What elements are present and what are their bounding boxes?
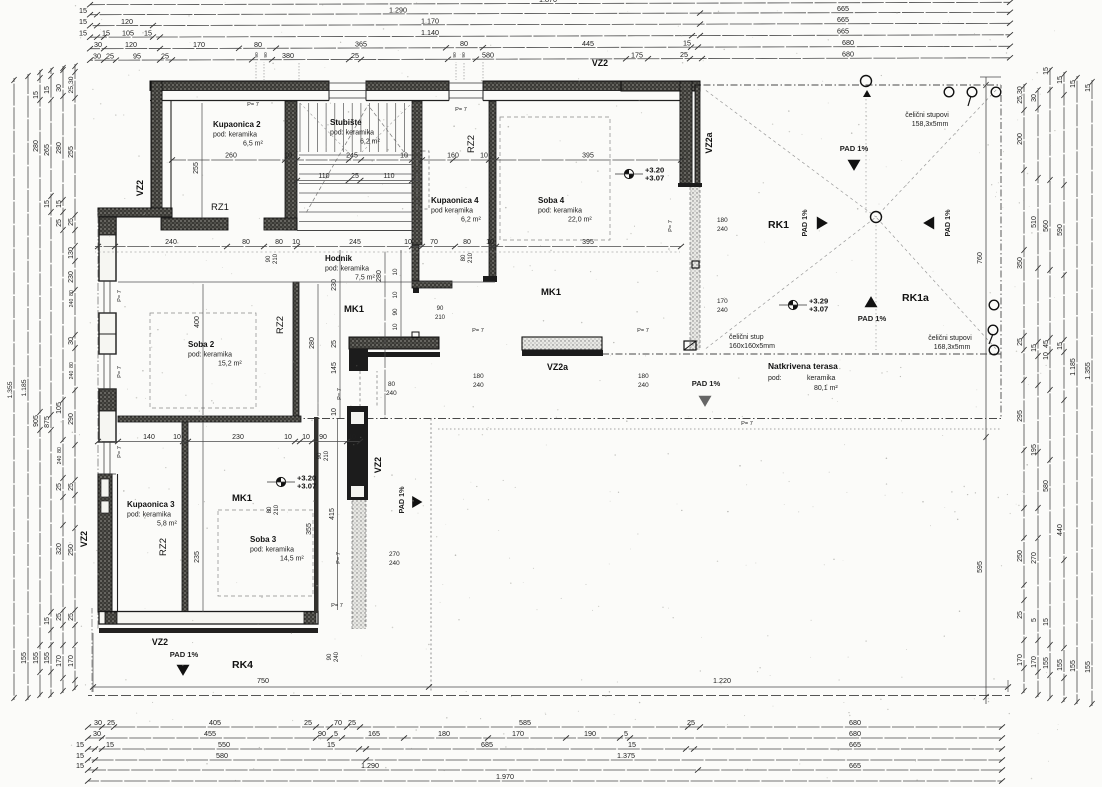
- svg-text:10: 10: [173, 434, 181, 441]
- svg-text:120: 120: [125, 40, 137, 49]
- svg-text:80,1 m²: 80,1 m²: [814, 385, 838, 392]
- steel columns circles: [861, 76, 1001, 355]
- svg-text:1.970: 1.970: [496, 772, 514, 781]
- wall step left: [98, 208, 172, 217]
- 180/240 left: [473, 373, 484, 389]
- svg-text:15: 15: [76, 751, 84, 760]
- svg-text:320: 320: [56, 543, 63, 555]
- svg-text:15: 15: [44, 200, 51, 208]
- svg-text:7,5 m²: 7,5 m²: [355, 275, 376, 282]
- svg-text:160: 160: [447, 153, 459, 160]
- svg-text:105: 105: [122, 29, 134, 38]
- svg-text:158,3x5mm: 158,3x5mm: [912, 121, 949, 128]
- svg-text:15: 15: [1070, 80, 1077, 88]
- svg-text:1.290: 1.290: [361, 761, 379, 770]
- svg-text:170: 170: [512, 729, 524, 738]
- svg-text:10: 10: [284, 153, 292, 160]
- svg-text:230: 230: [68, 271, 75, 283]
- room Kupaonica 2: [213, 120, 264, 148]
- top dimension chains: [79, 0, 1013, 80]
- svg-text:665: 665: [849, 740, 861, 749]
- svg-text:15: 15: [102, 29, 110, 38]
- svg-text:80: 80: [388, 381, 396, 388]
- PAD 1% top terrace: [840, 144, 869, 171]
- svg-text:445: 445: [582, 39, 594, 48]
- svg-text:1.140: 1.140: [421, 28, 439, 37]
- svg-text:235: 235: [194, 551, 201, 563]
- svg-text:+3.07: +3.07: [809, 305, 828, 314]
- svg-text:keramika: keramika: [807, 375, 836, 382]
- svg-text:905: 905: [33, 415, 40, 427]
- svg-text:210: 210: [468, 252, 474, 263]
- svg-text:15: 15: [1057, 342, 1064, 350]
- svg-text:440: 440: [1057, 524, 1064, 536]
- svg-text:25: 25: [348, 718, 356, 727]
- svg-text:10: 10: [392, 291, 399, 299]
- svg-text:VZ2: VZ2: [135, 180, 145, 196]
- svg-text:P= 7: P= 7: [336, 552, 342, 564]
- svg-text:240: 240: [473, 382, 484, 389]
- dim chain y180 stairs: [294, 173, 422, 183]
- svg-text:25: 25: [680, 50, 688, 59]
- svg-text:RK1: RK1: [768, 219, 789, 231]
- svg-text:168,3x5mm: 168,3x5mm: [934, 344, 971, 351]
- svg-text:10: 10: [331, 408, 338, 416]
- svg-text:455: 455: [204, 729, 216, 738]
- svg-text:30: 30: [1031, 94, 1038, 102]
- room Kupaonica 3: [127, 500, 178, 528]
- svg-text:170: 170: [717, 298, 728, 305]
- svg-text:255: 255: [193, 162, 200, 174]
- svg-text:5: 5: [624, 729, 628, 738]
- svg-text:čelični stupovi: čelični stupovi: [928, 335, 972, 342]
- svg-text:25: 25: [1017, 338, 1024, 346]
- svg-text:110: 110: [318, 173, 329, 180]
- svg-text:30: 30: [56, 84, 63, 92]
- svg-text:25,30: 25,30: [68, 76, 75, 93]
- svg-text:15: 15: [106, 740, 114, 749]
- svg-text:230: 230: [232, 434, 244, 441]
- dim chain y160: [169, 153, 684, 163]
- interior wall stairs right: [412, 101, 422, 245]
- svg-text:560: 560: [1043, 220, 1050, 232]
- svg-text:Soba 3: Soba 3: [250, 535, 277, 544]
- svg-text:6,2 m²: 6,2 m²: [360, 139, 381, 146]
- svg-text:10: 10: [486, 239, 494, 246]
- 180/240 right: [638, 373, 649, 389]
- svg-text:5: 5: [1031, 618, 1038, 622]
- svg-text:25: 25: [687, 718, 695, 727]
- VZ2 dashed projection strip: [352, 500, 366, 629]
- vertical dim lines interior: [193, 103, 401, 612]
- svg-text:1.355: 1.355: [1085, 362, 1092, 380]
- svg-text:510: 510: [1031, 216, 1038, 228]
- svg-text:1.185: 1.185: [1070, 358, 1077, 376]
- svg-text:PAD 1%: PAD 1%: [397, 486, 406, 514]
- svg-text:80: 80: [57, 447, 63, 453]
- svg-text:245: 245: [349, 239, 361, 246]
- svg-text:355: 355: [306, 523, 313, 535]
- PAD 1% right of house: [397, 486, 422, 514]
- svg-text:230: 230: [331, 279, 338, 291]
- svg-text:240: 240: [69, 299, 75, 308]
- svg-text:Kupaonica 3: Kupaonica 3: [127, 500, 175, 509]
- svg-text:180: 180: [717, 217, 728, 224]
- svg-text:25: 25: [68, 613, 75, 621]
- svg-text:95: 95: [133, 52, 141, 61]
- svg-text:580: 580: [482, 51, 494, 60]
- svg-text:6,5 m²: 6,5 m²: [243, 141, 264, 148]
- svg-text:250: 250: [1017, 550, 1024, 562]
- svg-text:10: 10: [284, 434, 292, 441]
- svg-text:25: 25: [304, 718, 312, 727]
- svg-text:15: 15: [76, 740, 84, 749]
- svg-text:155: 155: [1085, 661, 1092, 673]
- svg-text:25: 25: [68, 218, 75, 226]
- interior wall Kup4 right: [483, 101, 497, 282]
- bottom dimension chains: [76, 718, 1005, 783]
- svg-text:760: 760: [977, 252, 984, 264]
- svg-text:VZ2: VZ2: [152, 637, 168, 647]
- svg-text:155: 155: [33, 652, 40, 664]
- exterior walls top: [150, 81, 700, 101]
- svg-text:6,2 m²: 6,2 m²: [461, 217, 482, 224]
- svg-text:P= 7: P= 7: [247, 102, 259, 108]
- svg-text:90: 90: [327, 653, 333, 660]
- terrace boundary dash-dot lines: [88, 85, 1010, 696]
- bottom 750 / 1220 dimension: [90, 633, 1011, 692]
- svg-text:45: 45: [1043, 340, 1050, 348]
- svg-text:15: 15: [327, 740, 335, 749]
- PAD 1% terasa down: [692, 379, 721, 407]
- svg-text:155: 155: [1043, 657, 1050, 669]
- svg-text:550: 550: [218, 740, 230, 749]
- svg-text:15,2 m²: 15,2 m²: [218, 361, 242, 368]
- svg-text:Soba 2: Soba 2: [188, 340, 215, 349]
- svg-text:265: 265: [44, 144, 51, 156]
- door dashed Kup4: [417, 151, 429, 209]
- carpet dashed rect Soba4: [500, 117, 610, 240]
- svg-text:90: 90: [319, 434, 327, 441]
- svg-text:160x160x5mm: 160x160x5mm: [729, 343, 775, 350]
- svg-text:260: 260: [225, 153, 237, 160]
- svg-text:200: 200: [1017, 133, 1024, 145]
- level marker MK1: [267, 474, 316, 491]
- svg-text:30: 30: [93, 52, 101, 61]
- interior wall Kup3/Soba3: [182, 422, 188, 612]
- PAD 1% RK1 right arrow: [800, 209, 828, 237]
- svg-text:1.170: 1.170: [421, 16, 439, 25]
- svg-text:400: 400: [194, 316, 201, 328]
- room Soba 3: [250, 535, 304, 563]
- svg-text:P= 7: P= 7: [337, 388, 343, 400]
- svg-text:pod: keramika: pod: keramika: [538, 208, 582, 215]
- svg-text:280: 280: [376, 270, 383, 282]
- svg-text:25: 25: [56, 219, 63, 227]
- svg-text:210: 210: [274, 504, 280, 515]
- svg-text:80: 80: [463, 239, 471, 246]
- svg-text:VZ2: VZ2: [373, 457, 383, 473]
- svg-text:395: 395: [582, 239, 594, 246]
- svg-text:90: 90: [392, 308, 399, 316]
- svg-text:110: 110: [383, 173, 394, 180]
- svg-text:1.185: 1.185: [21, 379, 28, 396]
- svg-text:15: 15: [44, 86, 51, 94]
- staircase treads: [297, 103, 412, 231]
- svg-text:90: 90: [461, 52, 467, 58]
- svg-text:RZ2: RZ2: [275, 316, 286, 334]
- Pe7 small labels: [117, 102, 753, 609]
- svg-text:350: 350: [1017, 257, 1024, 269]
- svg-text:Kupaonica 2: Kupaonica 2: [213, 120, 261, 129]
- svg-text:čelični stup: čelični stup: [729, 334, 764, 341]
- svg-text:90: 90: [317, 452, 323, 459]
- svg-text:pod: keramika: pod: keramika: [330, 130, 374, 137]
- svg-text:155: 155: [44, 652, 51, 664]
- svg-text:875: 875: [44, 416, 51, 428]
- svg-text:MK1: MK1: [344, 304, 365, 315]
- svg-text:PAD 1%: PAD 1%: [800, 209, 809, 237]
- svg-text:PAD 1%: PAD 1%: [840, 144, 869, 153]
- svg-text:665: 665: [837, 4, 849, 13]
- svg-text:595: 595: [977, 561, 984, 573]
- VZ2 wall block: [347, 406, 368, 500]
- svg-text:pod: keramika: pod: keramika: [325, 266, 369, 273]
- svg-text:15: 15: [1043, 67, 1050, 75]
- svg-text:750: 750: [257, 676, 269, 685]
- svg-text:P= 7: P= 7: [331, 603, 343, 609]
- svg-text:280: 280: [309, 337, 316, 349]
- carpet dashed rect Soba2: [150, 313, 256, 408]
- VZ2a bar: [522, 337, 603, 356]
- right dimension columns: [1017, 67, 1095, 707]
- svg-text:245: 245: [346, 153, 358, 160]
- svg-text:25: 25: [1017, 611, 1024, 619]
- svg-text:30: 30: [94, 718, 102, 727]
- 270/240 label: [389, 551, 400, 567]
- svg-text:240: 240: [389, 560, 400, 567]
- svg-text:10: 10: [392, 323, 399, 331]
- room Hodnik: [325, 254, 376, 282]
- windows in top wall: [329, 83, 483, 98]
- svg-text:10: 10: [302, 434, 310, 441]
- svg-text:pod: keramika: pod: keramika: [213, 132, 257, 139]
- svg-text:240: 240: [334, 651, 340, 662]
- svg-text:25: 25: [107, 718, 115, 727]
- MK1 wall bar: [349, 337, 440, 371]
- svg-text:680: 680: [842, 50, 854, 59]
- svg-text:25: 25: [56, 613, 63, 621]
- room Kupaonica 4: [431, 196, 482, 224]
- svg-text:190: 190: [584, 729, 596, 738]
- svg-text:240: 240: [69, 371, 75, 380]
- svg-text:1.220: 1.220: [713, 676, 731, 685]
- svg-text:90: 90: [437, 306, 444, 312]
- svg-text:P= 7: P= 7: [741, 421, 753, 427]
- exterior wall right (Soba 4): [678, 81, 702, 187]
- svg-text:255: 255: [68, 146, 75, 158]
- svg-text:10: 10: [404, 239, 412, 246]
- bottom exterior wall: [92, 608, 318, 692]
- celicni stupovi top: [905, 112, 949, 128]
- svg-text:PAD 1%: PAD 1%: [170, 650, 199, 659]
- svg-text:RK4: RK4: [232, 659, 253, 671]
- room Natkrivena terasa: [768, 361, 838, 392]
- svg-text:155: 155: [1070, 660, 1077, 672]
- celicni stup mid: [729, 334, 775, 350]
- svg-text:665: 665: [837, 27, 849, 36]
- svg-text:25: 25: [351, 51, 359, 60]
- svg-text:175: 175: [631, 50, 643, 59]
- left dimension columns: [7, 63, 78, 701]
- svg-text:P= 7: P= 7: [668, 220, 674, 232]
- svg-text:10: 10: [392, 268, 399, 276]
- svg-text:VZ2: VZ2: [79, 531, 89, 547]
- svg-text:15: 15: [44, 617, 51, 625]
- svg-text:Natkrivena terasa: Natkrivena terasa: [768, 361, 838, 371]
- exterior wall left lower with windows: [98, 211, 118, 630]
- door hinge square symbols: [412, 261, 699, 350]
- svg-text:1.870: 1.870: [539, 0, 557, 4]
- svg-text:10: 10: [348, 434, 356, 441]
- svg-text:PAD 1%: PAD 1%: [692, 379, 721, 388]
- svg-text:15: 15: [1085, 84, 1092, 92]
- svg-text:210: 210: [324, 450, 330, 461]
- room Soba 2: [188, 340, 242, 368]
- wall Soba3 right: [314, 417, 319, 613]
- svg-text:RZ2: RZ2: [466, 135, 477, 153]
- 90 210 under hodnik chain: [0, 0, 1, 1]
- svg-text:90: 90: [263, 52, 269, 58]
- svg-text:130: 130: [68, 247, 75, 259]
- svg-text:365: 365: [355, 39, 367, 48]
- svg-text:15: 15: [79, 29, 87, 38]
- svg-text:15: 15: [79, 6, 87, 15]
- svg-text:PAD 1%: PAD 1%: [943, 209, 952, 237]
- svg-text:680: 680: [849, 729, 861, 738]
- svg-text:140: 140: [143, 434, 155, 441]
- right 760/595 dimension line: [977, 77, 1001, 704]
- svg-text:80: 80: [267, 506, 273, 513]
- level marker terasa: [779, 297, 828, 314]
- svg-text:665: 665: [837, 15, 849, 24]
- svg-text:čelični stupovi: čelični stupovi: [905, 112, 949, 119]
- svg-text:1.355: 1.355: [7, 381, 14, 398]
- svg-text:Stubište: Stubište: [330, 118, 362, 127]
- svg-text:Soba 4: Soba 4: [538, 196, 565, 205]
- svg-text:80: 80: [69, 362, 75, 368]
- door size labels stacked: [717, 217, 728, 233]
- interior wall Kup2/Soba2: [161, 218, 297, 230]
- svg-text:RZ2: RZ2: [158, 538, 169, 556]
- svg-text:240: 240: [57, 456, 63, 465]
- exterior wall left upper: [151, 81, 171, 216]
- svg-text:80: 80: [275, 239, 283, 246]
- svg-text:90: 90: [318, 729, 326, 738]
- svg-text:210: 210: [273, 253, 279, 264]
- svg-text:P= 7: P= 7: [117, 446, 123, 458]
- svg-text:+3.07: +3.07: [297, 482, 316, 491]
- svg-text:25: 25: [351, 173, 359, 180]
- svg-text:585: 585: [519, 718, 531, 727]
- svg-text:280: 280: [33, 140, 40, 152]
- svg-text:80: 80: [461, 254, 467, 261]
- svg-text:240: 240: [638, 382, 649, 389]
- svg-text:250: 250: [68, 544, 75, 556]
- svg-text:pod: keramika: pod: keramika: [250, 547, 294, 554]
- svg-text:15: 15: [144, 29, 152, 38]
- svg-text:VZ2a: VZ2a: [547, 362, 568, 372]
- svg-text:25,30: 25,30: [1017, 86, 1024, 104]
- svg-text:80: 80: [242, 239, 250, 246]
- svg-text:P= 7: P= 7: [637, 328, 649, 334]
- svg-text:680: 680: [849, 718, 861, 727]
- svg-text:90: 90: [452, 52, 458, 58]
- svg-text:170: 170: [68, 655, 75, 667]
- 80/240 door: [386, 381, 397, 397]
- svg-text:25: 25: [106, 52, 114, 61]
- PAD 1% left arrow: [923, 209, 952, 237]
- svg-text:30: 30: [68, 337, 75, 345]
- svg-text:25: 25: [331, 340, 338, 348]
- svg-text:15: 15: [79, 17, 87, 26]
- svg-text:665: 665: [849, 761, 861, 770]
- svg-text:Kupaonica 4: Kupaonica 4: [431, 196, 479, 205]
- 170/240 terrace2: [717, 298, 728, 314]
- svg-text:415: 415: [329, 508, 336, 520]
- svg-text:10: 10: [480, 153, 488, 160]
- svg-text:Hodnik: Hodnik: [325, 254, 353, 263]
- svg-text:15: 15: [683, 39, 691, 48]
- svg-text:P= 7: P= 7: [472, 328, 484, 334]
- svg-text:240: 240: [717, 307, 728, 314]
- svg-text:25: 25: [56, 483, 63, 491]
- svg-text:pod:: pod:: [768, 375, 782, 382]
- svg-text:15: 15: [628, 740, 636, 749]
- svg-text:PAD 1%: PAD 1%: [858, 314, 887, 323]
- svg-text:25: 25: [68, 483, 75, 491]
- svg-text:170: 170: [56, 655, 63, 667]
- svg-text:590: 590: [1057, 224, 1064, 236]
- svg-text:1.290: 1.290: [389, 5, 407, 14]
- svg-text:70: 70: [334, 718, 342, 727]
- room Stubiste: [330, 118, 381, 146]
- svg-text:170: 170: [1017, 654, 1024, 666]
- room Soba 4: [538, 196, 592, 224]
- svg-text:pod: keramika: pod: keramika: [127, 512, 171, 519]
- svg-text:VZ2: VZ2: [592, 58, 608, 68]
- svg-text:295: 295: [1017, 410, 1024, 422]
- svg-text:240: 240: [717, 226, 728, 233]
- svg-text:70: 70: [430, 239, 438, 246]
- svg-text:240: 240: [386, 390, 397, 397]
- svg-text:80: 80: [254, 40, 262, 49]
- svg-text:pod: keramika: pod: keramika: [188, 352, 232, 359]
- svg-text:15: 15: [33, 91, 40, 99]
- svg-text:165: 165: [368, 729, 380, 738]
- svg-text:22,0 m²: 22,0 m²: [568, 217, 592, 224]
- svg-text:580: 580: [216, 751, 228, 760]
- interior wall Kup2/stairs: [285, 101, 297, 230]
- svg-text:380: 380: [282, 51, 294, 60]
- svg-text:155: 155: [1057, 659, 1064, 671]
- PAD 1% up arrow RK1a: [858, 296, 887, 323]
- svg-text:RK1a: RK1a: [902, 292, 929, 304]
- svg-text:180: 180: [438, 729, 450, 738]
- svg-text:685: 685: [481, 740, 493, 749]
- svg-text:270: 270: [389, 551, 400, 558]
- level marker Soba4: [615, 166, 664, 183]
